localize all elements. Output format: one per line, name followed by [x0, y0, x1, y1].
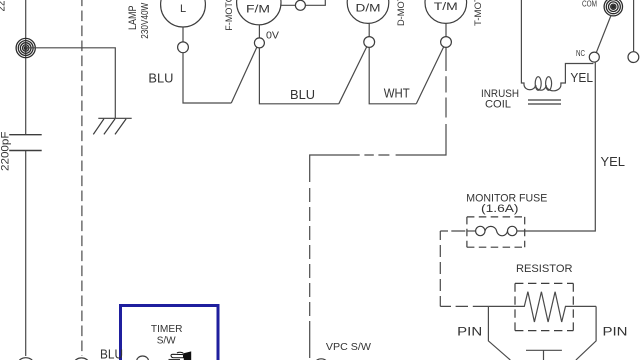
svg-text:F-MOTOR: F-MOTOR — [224, 0, 234, 31]
svg-text:T/M: T/M — [434, 1, 458, 13]
svg-text:YEL: YEL — [601, 154, 626, 169]
svg-text:22: 22 — [0, 1, 7, 12]
wire NC down (YEL) — [517, 62, 595, 231]
svg-text:NC: NC — [576, 48, 585, 58]
svg-text:D/M: D/M — [356, 2, 381, 14]
switch lever to T/M — [416, 47, 443, 104]
svg-text:T-MOTOR: T-MOTOR — [473, 0, 483, 26]
svg-text:WHT: WHT — [384, 86, 410, 101]
svg-text:D-MOTOR: D-MOTOR — [396, 0, 406, 26]
svg-text:COIL: COIL — [485, 99, 511, 111]
capacitor C1 2200pF — [9, 135, 42, 151]
magnetron outline — [488, 306, 510, 360]
svg-text:BLU: BLU — [148, 71, 173, 86]
wire 0V down and right (BLU) — [259, 48, 338, 104]
svg-text:2200pF: 2200pF — [0, 131, 12, 171]
svg-text:L: L — [180, 3, 186, 15]
node spiral terminal COM — [604, 0, 622, 16]
fan motor F/M circle — [237, 0, 281, 25]
wire dashed from T/M terminal down — [310, 47, 446, 182]
resistor dashed box — [515, 283, 573, 330]
wire F/M to 0V terminal — [258, 25, 260, 38]
terminal right of F/M — [295, 0, 305, 10]
wire dashed down — [439, 231, 441, 306]
terminal below lamp — [178, 42, 189, 53]
switch lever to D/M — [339, 47, 367, 104]
wire to ground — [26, 48, 116, 119]
svg-text:BLU: BLU — [100, 347, 123, 360]
inrush coil lead — [521, 0, 524, 85]
terminal below D/M — [364, 37, 375, 48]
svg-text:0V: 0V — [266, 30, 279, 42]
timer switch box — [121, 306, 219, 360]
svg-text:PIN: PIN — [457, 325, 482, 339]
timer knob hand icon — [169, 352, 191, 360]
switch lever COM to NC — [596, 15, 611, 52]
wire left main vertical — [25, 0, 27, 356]
svg-text:PIN: PIN — [603, 325, 628, 339]
wire T/M to terminal — [445, 23, 447, 36]
svg-text:BLU: BLU — [290, 87, 315, 102]
wire dashed vertical (door line) — [81, 0, 83, 356]
inrush coil arcs — [524, 64, 593, 91]
switch lever to F/M 0V — [231, 47, 256, 103]
terminal 0V — [254, 38, 264, 48]
ground — [93, 118, 131, 134]
wire D/M to terminal — [368, 23, 370, 36]
svg-text:VPC S/W: VPC S/W — [326, 341, 371, 353]
inrush coil loops — [535, 77, 541, 91]
magnetron filament — [526, 350, 562, 360]
terminal VPC — [315, 359, 328, 360]
wire F/M right terminal — [281, 0, 325, 5]
svg-text:(1.6A): (1.6A) — [481, 203, 519, 215]
svg-text:RESISTOR: RESISTOR — [516, 263, 573, 275]
svg-text:TIMER: TIMER — [151, 323, 183, 335]
svg-text:COM: COM — [582, 0, 597, 8]
wire NO up — [633, 0, 635, 52]
wire lamp down and right (BLU) — [183, 53, 231, 103]
terminal NO right — [628, 52, 639, 63]
svg-text:230V40W: 230V40W — [140, 2, 151, 38]
terminal circle bottom-left — [19, 358, 33, 360]
terminal in timer box — [137, 356, 149, 360]
resistor R zigzag — [488, 292, 596, 322]
terminal NC — [589, 52, 599, 62]
turntable motor T/M circle — [425, 0, 467, 23]
wire lamp to terminal — [182, 27, 184, 42]
monitor fuse dashed box — [467, 217, 525, 247]
inrush coil core — [528, 100, 561, 104]
svg-text:S/W: S/W — [157, 335, 176, 347]
terminal below T/M — [441, 37, 452, 48]
svg-text:F/M: F/M — [246, 3, 270, 15]
node spiral terminal top-left — [16, 38, 35, 57]
svg-text:LAMP: LAMP — [127, 6, 139, 31]
wire dashed fuse left — [440, 230, 465, 232]
wire D/M down and right (WHT) — [369, 47, 416, 103]
svg-text:YEL: YEL — [570, 70, 593, 85]
wire dashed right to resistor — [440, 305, 488, 307]
wire dashed down to VPC — [309, 188, 311, 358]
drive motor D/M circle — [347, 0, 389, 23]
lamp L circle — [161, 0, 206, 27]
fuse F1 symbol — [476, 226, 485, 235]
terminal circle bottom (door line) — [74, 358, 88, 360]
